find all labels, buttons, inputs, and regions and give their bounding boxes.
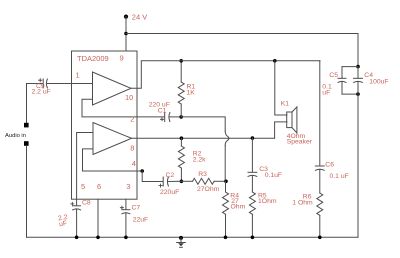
capacitor C2 220uF (162, 177, 164, 186)
capacitor C4 (357, 67, 359, 79)
IC U1 TDA2009 package outline (72, 51, 138, 199)
svg-text:C5: C5 (329, 72, 338, 79)
loudspeaker K1 (287, 112, 292, 128)
node C4/C5 bottom junction (356, 92, 360, 96)
capacitor C6 0.1uF (319, 61, 321, 166)
svg-text:27Ohm: 27Ohm (197, 186, 220, 193)
svg-text:1K: 1K (187, 89, 196, 96)
node audio input ground terminal (24, 141, 29, 146)
wire speaker top branch (275, 61, 287, 115)
resistor R5 1Ohm (249, 192, 255, 214)
node R6 bottom (318, 236, 322, 240)
node C7 bottom (124, 236, 128, 240)
svg-text:Speaker: Speaker (287, 139, 313, 146)
svg-text:C2: C2 (166, 172, 175, 179)
wire C2 to R2/R3 node (168, 180, 181, 182)
node 24V supply terminal (124, 15, 128, 19)
node audio input signal terminal (24, 123, 29, 128)
svg-text:2: 2 (130, 115, 134, 124)
node pin 6 bottom (96, 236, 100, 240)
node C3 top junction (251, 136, 255, 140)
wire op-amp A2 inverting feedback to pin 4 (83, 149, 143, 171)
svg-text:9: 9 (120, 54, 124, 63)
node R2 top junction (180, 136, 184, 140)
svg-text:C7: C7 (132, 205, 141, 212)
wire C5 bottom bar (342, 93, 358, 95)
svg-text:220uF: 220uF (160, 189, 179, 196)
svg-text:Ohm: Ohm (231, 203, 246, 210)
capacitor C7 22uF (122, 209, 130, 211)
svg-text:22uF: 22uF (133, 217, 149, 224)
wire right rail upper segment (357, 34, 359, 67)
wire right rail lower segment (357, 81, 359, 237)
node C4/C5 top junction (356, 65, 360, 69)
svg-text:C1: C1 (158, 108, 167, 115)
wire bottom ground rail (27, 236, 359, 238)
svg-text:1Ohm: 1Ohm (258, 198, 277, 205)
node R1/C1 junction (179, 115, 183, 119)
node R3/R4 junction (224, 180, 228, 184)
svg-text:1: 1 (76, 71, 80, 80)
ground symbol (179, 236, 183, 240)
resistor R4 27 Ohm (225, 181, 227, 192)
svg-text:3: 3 (126, 182, 130, 191)
capacitor C8 2.2uF (73, 205, 81, 207)
capacitor C3 0.1uF (251, 138, 253, 172)
wire pin 6 to ground rail (97, 199, 99, 237)
wire R1/C1 node to R3/R4 node (with hop over bridge line) (181, 117, 225, 131)
wire speaker bottom terminal to bridge line (275, 122, 287, 138)
svg-text:K1: K1 (281, 101, 290, 108)
node R4 bottom (224, 236, 228, 240)
svg-text:R3: R3 (198, 171, 207, 178)
capacitor C9 input coupling (27, 83, 44, 85)
op-amp A2 (lower amplifier) (93, 123, 132, 155)
wire op-amp A2 output bridge line (132, 137, 275, 139)
svg-text:uF: uF (59, 220, 68, 228)
svg-text:24 V: 24 V (132, 13, 147, 22)
svg-text:2.2k: 2.2k (193, 156, 206, 163)
wire 24V terminal down to IC pin 9 (125, 17, 127, 51)
svg-text:4: 4 (132, 159, 136, 168)
svg-text:0.1uF: 0.1uF (265, 172, 282, 179)
wire C1 to R1 bottom node (170, 116, 182, 118)
wire input terminal to C9 (26, 84, 28, 124)
capacitor C1 220uF (164, 113, 166, 122)
svg-text:1 Ohm: 1 Ohm (292, 200, 313, 207)
svg-text:5: 5 (81, 182, 85, 191)
node R5 bottom (251, 236, 255, 240)
svg-text:C8: C8 (82, 200, 91, 207)
node C8 bottom (75, 236, 79, 240)
wire input ground terminal to bottom rail (26, 146, 28, 238)
svg-text:C6: C6 (325, 161, 334, 168)
node R1 top on output wire (179, 59, 183, 63)
wire pin 5 column with C8 (77, 133, 93, 206)
svg-text:2.2 uF: 2.2 uF (32, 89, 51, 96)
svg-text:8: 8 (130, 143, 134, 152)
capacitor C5 (341, 67, 343, 79)
wire pin 3 column with C7 (125, 199, 127, 209)
wire C5 top bar (342, 66, 358, 68)
svg-text:Audio in: Audio in (5, 133, 26, 139)
resistor R6 1 Ohm (317, 193, 323, 215)
resistor R3 270hm horizontal (181, 180, 192, 182)
svg-text:uF: uF (322, 89, 330, 96)
node pin 4 corner (140, 169, 144, 173)
node junction of supply wire and top rail (124, 32, 128, 36)
resistor R1 1K (180, 61, 182, 82)
svg-text:0.1 uF: 0.1 uF (330, 173, 349, 180)
wire op-amp A1 inverting feedback loop (82, 99, 137, 117)
node R2/R3/C2 junction (180, 180, 184, 184)
wire op-amp A1 output to long output line (131, 61, 320, 89)
svg-text:TDA2009: TDA2009 (77, 54, 109, 63)
svg-text:10: 10 (125, 93, 133, 102)
svg-text:100uF: 100uF (369, 79, 388, 86)
resistor R2 2.2k (180, 138, 182, 146)
svg-text:6: 6 (97, 182, 101, 191)
node speaker branch junction (273, 59, 277, 63)
wire pin 2 to C1 (137, 116, 165, 118)
op-amp A1 (upper amplifier) (93, 72, 132, 105)
wire pin 4 corner down to C2 (142, 171, 163, 182)
wire top supply rail (126, 33, 358, 35)
